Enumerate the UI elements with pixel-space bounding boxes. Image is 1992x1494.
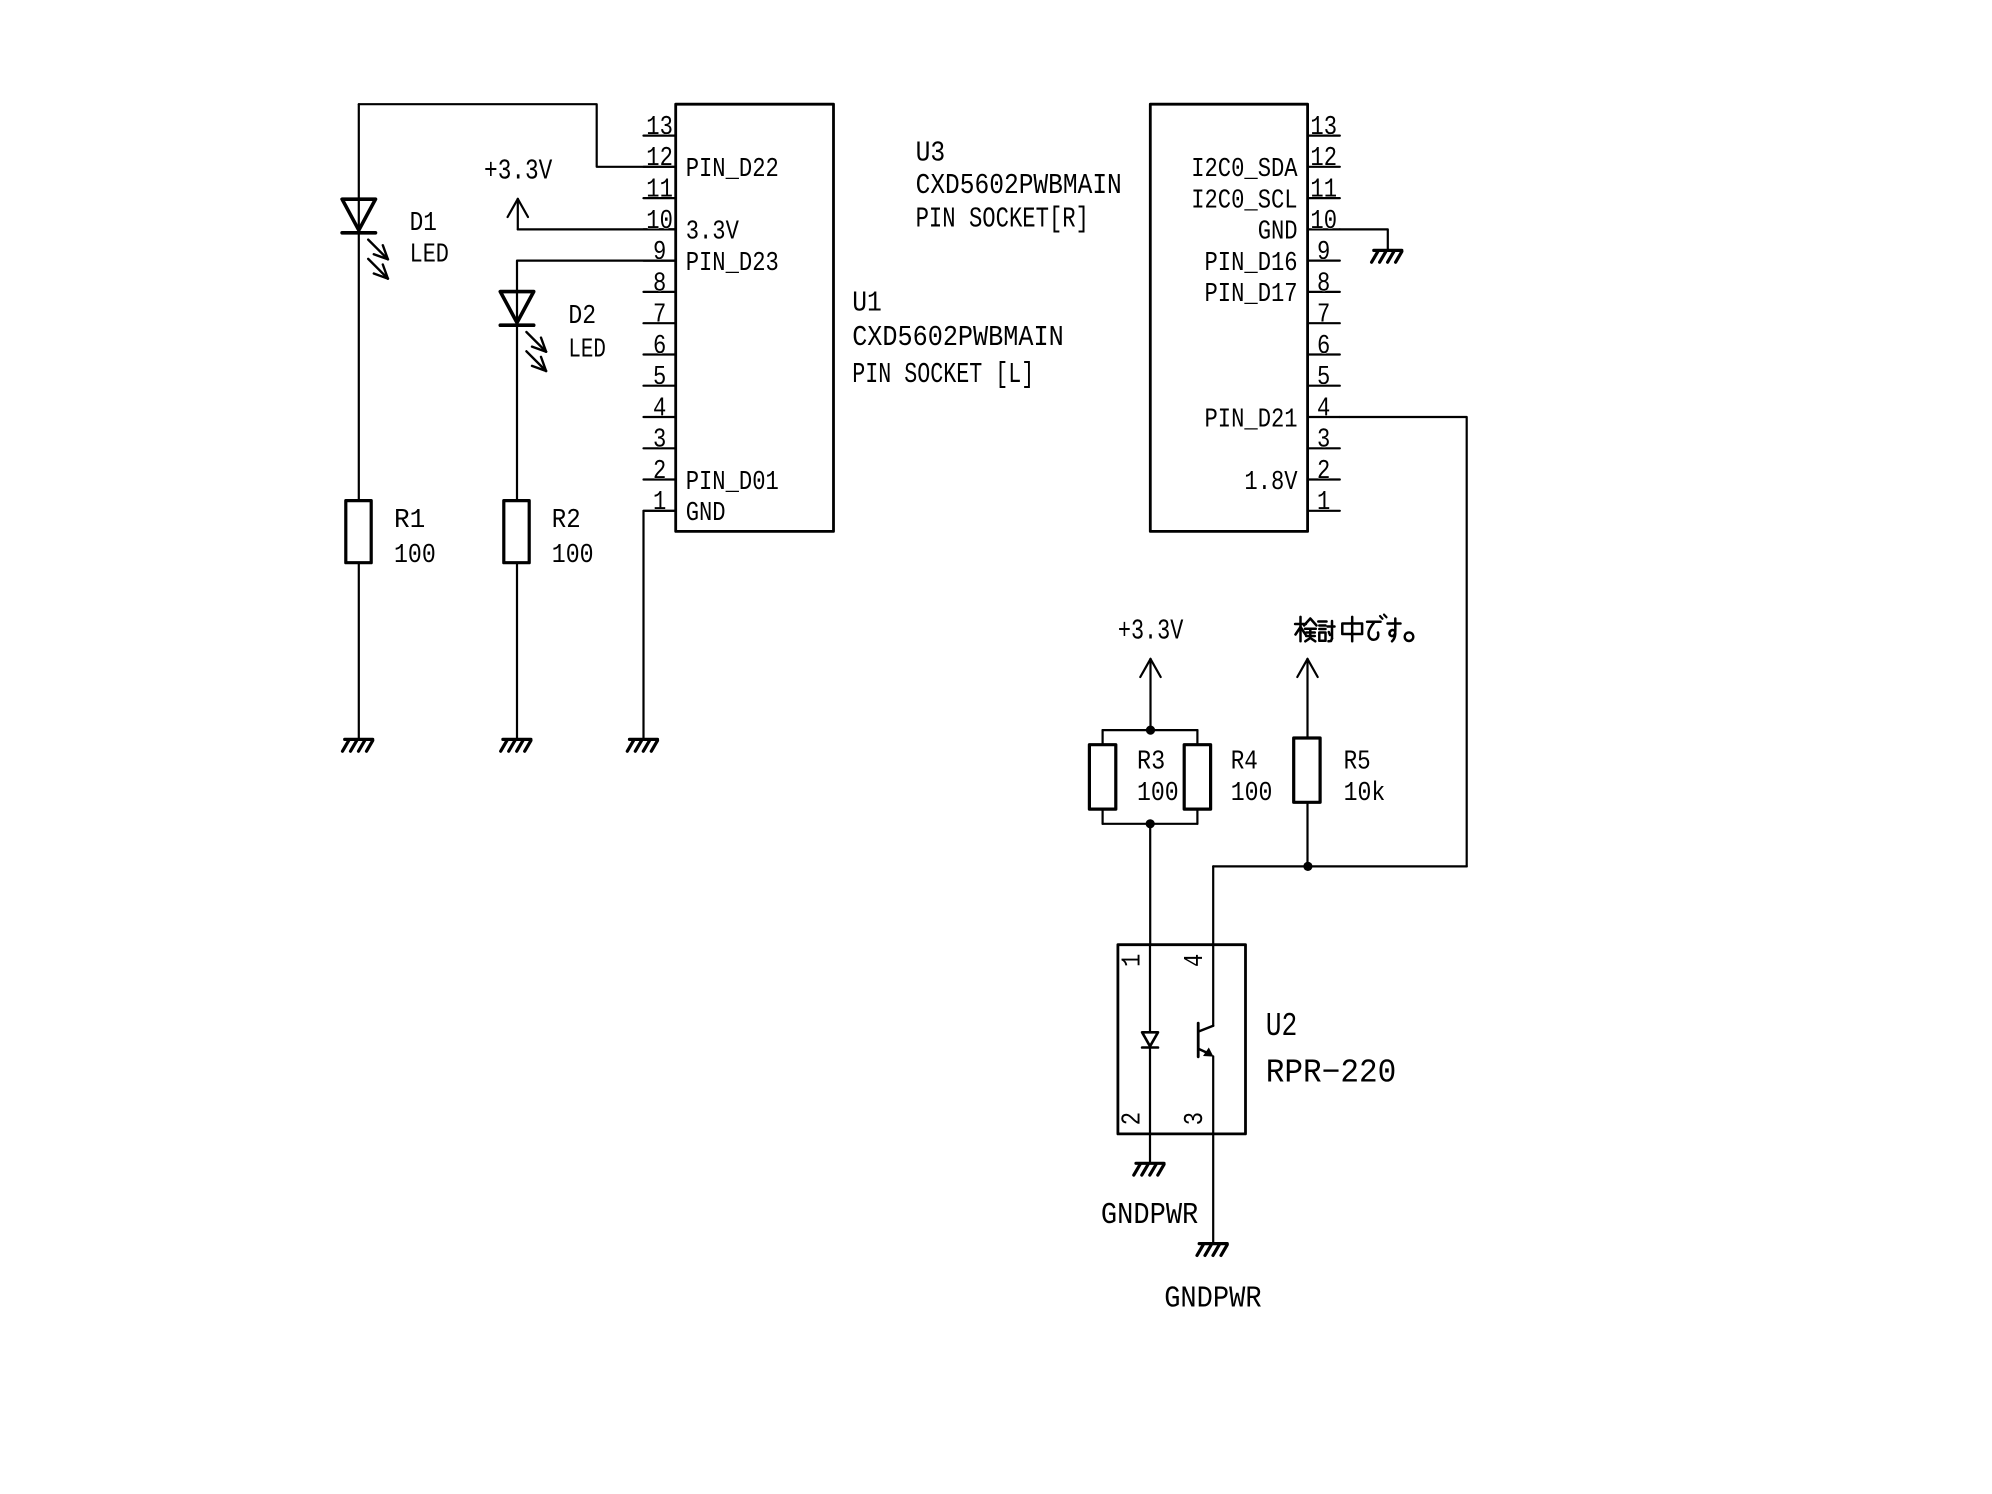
U1 pin 12	[644, 166, 676, 168]
LED D2	[500, 292, 546, 371]
U3 pin 4	[1308, 416, 1340, 418]
resistor R3	[1089, 745, 1115, 809]
svg-text:1: 1	[1117, 954, 1147, 967]
svg-text:1: 1	[653, 487, 666, 517]
U1 pin 9	[644, 260, 676, 262]
wire bus to U2 pin 4	[1212, 866, 1214, 944]
svg-text:3: 3	[653, 425, 666, 455]
svg-text:2: 2	[653, 456, 666, 486]
svg-text:D1: D1	[410, 209, 437, 239]
svg-text:8: 8	[1317, 268, 1330, 298]
svg-text:13: 13	[1310, 112, 1337, 142]
svg-text:7: 7	[1317, 300, 1330, 330]
svg-text:13: 13	[646, 112, 673, 142]
svg-text:3: 3	[1180, 1112, 1210, 1125]
resistor R5	[1294, 738, 1320, 802]
U3 pin 11	[1308, 197, 1340, 199]
U3 pin 8	[1308, 291, 1340, 293]
LED D1	[342, 199, 388, 278]
wire +3.3V to U1 pin 10	[518, 228, 676, 230]
wire U1 pin 9 to D2	[517, 261, 676, 501]
junction R5/bus	[1303, 862, 1312, 871]
svg-text:U3: U3	[916, 137, 946, 170]
svg-text:4: 4	[1317, 393, 1330, 423]
U2 internal LED diode	[1149, 945, 1151, 1033]
svg-text:11: 11	[1310, 175, 1337, 205]
svg-text:3.3V: 3.3V	[686, 218, 740, 248]
svg-text:4: 4	[653, 393, 666, 423]
U3 pin 7	[1308, 322, 1340, 324]
svg-text:PIN_D22: PIN_D22	[686, 155, 779, 185]
wire D1 vertical	[358, 104, 360, 500]
wire junction to U2 pin 1	[1149, 824, 1151, 945]
svg-text:LED: LED	[568, 335, 606, 365]
junction bottom of R3/R4	[1146, 819, 1155, 828]
svg-text:R2: R2	[552, 506, 581, 536]
wire R3/R4 bottom rail	[1101, 809, 1103, 824]
wire R2 to ground	[516, 563, 518, 740]
wire U3 pin 10 to ground	[1340, 229, 1388, 250]
svg-text:GND: GND	[686, 499, 726, 529]
power arrow for R5 (under consideration)	[1297, 659, 1317, 738]
pin socket U3 box	[1150, 104, 1307, 531]
svg-text:10: 10	[1310, 206, 1337, 236]
wire R3/R4 top rail	[1103, 729, 1198, 731]
U1 pin 2	[644, 478, 676, 480]
resistor R2	[504, 501, 529, 563]
svg-text:PIN SOCKET[R]: PIN SOCKET[R]	[916, 203, 1089, 236]
ground under R2	[501, 739, 531, 751]
svg-text:PIN SOCKET [L]: PIN SOCKET [L]	[852, 358, 1034, 391]
svg-text:8: 8	[653, 268, 666, 298]
wire R5 bottom to bus	[1306, 802, 1308, 866]
svg-text:10: 10	[646, 206, 673, 236]
U3 pin 10	[1308, 228, 1340, 230]
svg-text:R1: R1	[394, 506, 425, 536]
U3 pin 13	[1308, 135, 1340, 137]
ground under U2 pin 3	[1197, 1244, 1227, 1256]
junction top of R3/R4	[1146, 726, 1155, 735]
svg-text:100: 100	[1137, 779, 1179, 809]
U3 pin 5	[1308, 385, 1340, 387]
svg-text:I2C0_SCL: I2C0_SCL	[1191, 186, 1297, 216]
svg-text:100: 100	[394, 541, 436, 571]
power +3.3V arrow (middle)	[1140, 659, 1160, 730]
svg-text:PIN_D23: PIN_D23	[686, 249, 779, 279]
U2 phototransistor Q	[1212, 945, 1214, 1026]
svg-text:PIN_D16: PIN_D16	[1205, 249, 1298, 279]
U1 pin 13	[644, 135, 676, 137]
svg-text:9: 9	[653, 237, 666, 267]
svg-text:U1: U1	[852, 287, 882, 320]
svg-text:12: 12	[646, 143, 673, 173]
svg-text:7: 7	[653, 300, 666, 330]
photo-reflector U2 box	[1118, 945, 1246, 1134]
svg-text:PIN_D01: PIN_D01	[686, 468, 779, 498]
U1 pin 6	[644, 353, 676, 355]
U1 pin 1	[644, 510, 676, 512]
svg-text:CXD5602PWBMAIN: CXD5602PWBMAIN	[916, 169, 1122, 202]
U1 pin 10	[644, 228, 676, 230]
svg-text:R3: R3	[1137, 747, 1165, 777]
resistor R1	[346, 501, 371, 563]
svg-text:PIN_D21: PIN_D21	[1205, 405, 1298, 435]
svg-text:6: 6	[1317, 331, 1330, 361]
svg-text:4: 4	[1180, 954, 1210, 967]
ground under R1	[343, 739, 373, 751]
U3 pin 2	[1308, 478, 1340, 480]
svg-text:GNDPWR: GNDPWR	[1101, 1199, 1198, 1233]
wire U1 pin 1 GND to ground	[644, 511, 676, 740]
U1 pin 8	[644, 291, 676, 293]
wire D1 anode to U1 pin 12	[359, 104, 676, 167]
svg-text:6: 6	[653, 331, 666, 361]
U3 pin 3	[1308, 447, 1340, 449]
U3 pin 9	[1308, 260, 1340, 262]
U3 pin 6	[1308, 353, 1340, 355]
svg-text:CXD5602PWBMAIN: CXD5602PWBMAIN	[852, 321, 1063, 354]
svg-text:2: 2	[1117, 1112, 1147, 1125]
wire horizontal bus U2 pin4 to U3 pin4	[1213, 865, 1467, 867]
svg-text:GND: GND	[1258, 218, 1298, 248]
svg-text:10k: 10k	[1344, 779, 1386, 809]
svg-text:100: 100	[552, 541, 594, 571]
U3 pin 12	[1308, 166, 1340, 168]
svg-text:100: 100	[1231, 779, 1273, 809]
ground under U1 pin 1	[627, 739, 657, 751]
svg-text:1: 1	[1317, 487, 1330, 517]
label kentochu-desu (Japanese)	[1295, 615, 1413, 642]
svg-text:11: 11	[646, 175, 673, 205]
svg-text:RPR−220: RPR−220	[1266, 1054, 1397, 1091]
svg-text:LED: LED	[410, 241, 449, 271]
svg-text:3: 3	[1317, 425, 1330, 455]
svg-text:5: 5	[1317, 362, 1330, 392]
wire R1 to ground	[358, 563, 360, 740]
power +3.3V arrow (left)	[508, 199, 528, 230]
svg-text:+3.3V: +3.3V	[484, 154, 553, 187]
svg-text:5: 5	[653, 362, 666, 392]
svg-text:1.8V: 1.8V	[1244, 468, 1298, 498]
svg-text:R4: R4	[1231, 747, 1258, 777]
U1 pin 3	[644, 447, 676, 449]
svg-text:D2: D2	[568, 302, 596, 332]
pin socket U1 box	[676, 104, 834, 531]
U1 pin 5	[644, 385, 676, 387]
U1 pin 4	[644, 416, 676, 418]
svg-text:9: 9	[1317, 237, 1330, 267]
svg-text:I2C0_SDA: I2C0_SDA	[1191, 155, 1298, 185]
svg-text:PIN_D17: PIN_D17	[1205, 280, 1298, 310]
U1 pin 7	[644, 322, 676, 324]
svg-text:R5: R5	[1344, 747, 1371, 777]
svg-text:2: 2	[1317, 456, 1330, 486]
svg-text:+3.3V: +3.3V	[1118, 615, 1184, 648]
svg-text:U2: U2	[1266, 1008, 1298, 1045]
ground under U2 pin 2	[1134, 1163, 1164, 1175]
U3 pin 1	[1308, 510, 1340, 512]
resistor R4	[1184, 745, 1210, 809]
ground at U3 pin 10	[1372, 250, 1402, 262]
svg-text:12: 12	[1310, 143, 1337, 173]
U1 pin 11	[644, 197, 676, 199]
svg-text:GNDPWR: GNDPWR	[1164, 1282, 1261, 1316]
wire U3 pin 4 PIN_D21 net	[1340, 417, 1467, 866]
